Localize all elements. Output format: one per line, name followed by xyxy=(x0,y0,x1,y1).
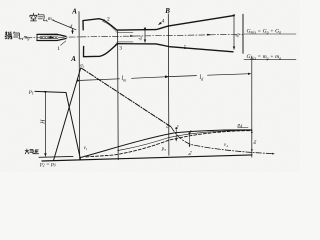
svg-text:A: A xyxy=(70,55,76,63)
velocity decay dashed diagonal xyxy=(82,68,172,127)
diffuser exit plane xyxy=(242,14,244,53)
svg-text:p1: p1 xyxy=(28,89,34,95)
gas velocity rise line xyxy=(54,68,81,161)
svg-text:3: 3 xyxy=(119,45,122,51)
nozzle diameter d dimension xyxy=(72,29,74,34)
svg-text:mg: mg xyxy=(24,35,30,41)
svg-text:H: H xyxy=(41,119,47,125)
label 4 arrow xyxy=(159,23,162,25)
velocity decay after B-B dash-dot xyxy=(171,127,274,154)
H head dimension xyxy=(44,94,46,156)
flow arrow on centerline (mixing tube) xyxy=(130,35,135,37)
flow arrow on centerline (diffuser) xyxy=(207,34,212,36)
small head dimension near B-B xyxy=(175,130,177,141)
svg-text:B: B xyxy=(164,7,170,15)
throat diameter d2 dimension xyxy=(144,31,146,43)
svg-text:2: 2 xyxy=(107,17,110,23)
centerline of ejector xyxy=(26,34,243,38)
label 燃气 (fuel gas) xyxy=(5,32,23,40)
mixing tube length dimension l_m xyxy=(80,79,119,81)
svg-text:4: 4 xyxy=(162,19,165,25)
underline leader to Gmix lower text xyxy=(244,59,296,61)
section line B-B xyxy=(167,14,170,156)
svg-text:v4: v4 xyxy=(224,143,228,148)
svg-text:v1: v1 xyxy=(84,146,88,151)
diffuser length dimension l_d xyxy=(169,76,197,77)
flow arrow on centerline (nozzle) xyxy=(50,36,55,38)
exit diameter d3 dimension xyxy=(233,17,235,49)
svg-text:p3: p3 xyxy=(161,147,166,152)
svg-text:5: 5 xyxy=(184,45,187,51)
p4 level tick xyxy=(238,127,248,129)
small head dimension h3 xyxy=(189,135,191,147)
h4 dimension arrows on right vertical xyxy=(251,131,253,140)
air inlet leader line xyxy=(54,21,77,30)
section line A-A xyxy=(78,12,81,161)
static pressure lower curve S3 xyxy=(118,130,252,150)
svg-text:lm: lm xyxy=(122,76,127,82)
label 大气压 (atmospheric pressure) xyxy=(25,149,39,154)
background paper xyxy=(0,0,300,172)
svg-text:d: d xyxy=(70,24,73,30)
svg-text:A: A xyxy=(71,8,77,16)
right boundary vertical xyxy=(251,56,253,157)
atmospheric pressure level line xyxy=(39,155,73,158)
underline leader to Gmix upper text xyxy=(244,33,296,35)
section line 3 (throat start) xyxy=(117,30,120,160)
svg-text:a1: a1 xyxy=(80,64,84,69)
nozzle pressure drop line xyxy=(66,93,81,160)
p1 pressure level line xyxy=(35,91,66,92)
label 1 leader xyxy=(61,41,66,45)
label 空气 (air) xyxy=(30,13,47,21)
label 2 leader xyxy=(102,18,105,21)
static pressure recovery curve S1 xyxy=(80,130,252,158)
gas nozzle tube xyxy=(37,34,66,36)
throat wall inner lines xyxy=(103,21,134,32)
static pressure dashed curve S2 xyxy=(86,131,252,157)
svg-text:ma: ma xyxy=(48,16,54,22)
svg-text:p2 = p0: p2 = p0 xyxy=(39,162,56,168)
bell mouth and duct upper wall xyxy=(83,16,233,30)
graph base axis xyxy=(42,155,252,161)
svg-text:1: 1 xyxy=(57,46,60,52)
bell mouth and duct lower wall xyxy=(84,44,234,57)
